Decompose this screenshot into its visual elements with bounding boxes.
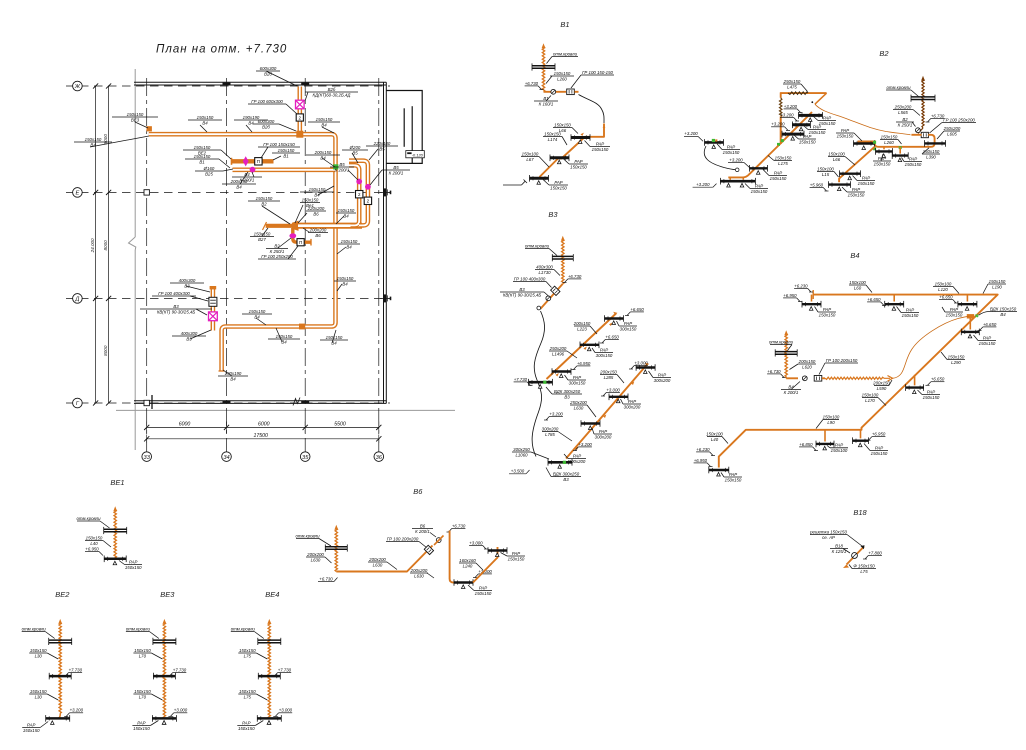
label В4 bbox=[232, 172, 262, 183]
svg-text:150x150: 150x150 bbox=[30, 648, 47, 653]
label 200x150 bbox=[872, 380, 890, 391]
grille РАР bbox=[829, 181, 851, 190]
svg-text:L1730: L1730 bbox=[538, 270, 551, 275]
label РАР bbox=[549, 180, 568, 191]
svg-text:L75: L75 bbox=[244, 694, 252, 699]
svg-text:250x200: 250x200 bbox=[943, 126, 961, 131]
svg-text:В2б: В2б bbox=[328, 87, 336, 92]
svg-text:L260: L260 bbox=[884, 140, 894, 145]
svg-text:200x150: 200x150 bbox=[798, 359, 816, 364]
svg-text:L630: L630 bbox=[373, 562, 383, 567]
label 150x150 bbox=[922, 149, 940, 160]
svg-text:+7.730: +7.730 bbox=[173, 667, 187, 672]
svg-text:L590: L590 bbox=[877, 386, 887, 391]
svg-text:Д: Д bbox=[74, 297, 79, 303]
elevation mark +6.950 bbox=[694, 458, 713, 467]
leader bbox=[223, 169, 233, 171]
elevation mark +6.950 bbox=[783, 293, 802, 302]
svg-text:L475: L475 bbox=[787, 84, 797, 89]
duct В1 short solid y=161.3 bbox=[232, 159, 274, 163]
label 150x150 bbox=[238, 689, 256, 700]
svg-text:РАР: РАР bbox=[862, 175, 870, 180]
label ГР 100 150x150 bbox=[258, 142, 300, 147]
label РАР bbox=[904, 156, 922, 167]
svg-text:150x150: 150x150 bbox=[134, 648, 151, 653]
leader bbox=[303, 228, 309, 232]
label В2 bbox=[266, 243, 288, 254]
label 600x300 bbox=[256, 66, 280, 77]
svg-text:150x150: 150x150 bbox=[134, 689, 151, 694]
svg-text:150x150: 150x150 bbox=[989, 279, 1006, 284]
svg-text:отм.кровли: отм.кровли bbox=[295, 533, 320, 538]
grille ВДК bbox=[529, 379, 553, 388]
label 150x100 bbox=[933, 281, 953, 292]
В1 flexible connector bbox=[579, 95, 605, 124]
label 200x200 bbox=[306, 552, 325, 563]
grille РАР bbox=[958, 301, 977, 310]
label РАР bbox=[474, 585, 492, 596]
label 150x150 bbox=[300, 197, 320, 208]
svg-text:РАР: РАР bbox=[927, 389, 935, 394]
label Ø200 bbox=[342, 145, 368, 156]
svg-text:В2: В2 bbox=[261, 201, 267, 206]
svg-text:+5.960: +5.960 bbox=[810, 182, 824, 187]
svg-text:РАР: РАР bbox=[813, 124, 821, 129]
svg-text:+6.650: +6.650 bbox=[983, 322, 997, 327]
grille РАР bbox=[792, 122, 810, 131]
label В3 bbox=[140, 304, 212, 315]
label 300x200 bbox=[542, 426, 559, 437]
В6 right drop and grilles bbox=[450, 531, 462, 583]
svg-text:РАР: РАР bbox=[554, 180, 562, 185]
svg-text:К 200/1: К 200/1 bbox=[240, 177, 255, 182]
svg-text:150x150: 150x150 bbox=[837, 133, 854, 138]
label 150x100 bbox=[849, 280, 866, 291]
svg-text:L40: L40 bbox=[711, 437, 719, 442]
svg-text:+6.730: +6.730 bbox=[452, 523, 466, 528]
svg-text:+3.200: +3.200 bbox=[784, 104, 798, 109]
grille РАР bbox=[705, 139, 724, 148]
svg-text:В18: В18 bbox=[835, 543, 843, 548]
label РАР bbox=[857, 175, 875, 186]
label 150x150 bbox=[336, 208, 356, 219]
label 150x150 bbox=[188, 115, 222, 126]
label В6 bbox=[412, 523, 433, 534]
grille РАР bbox=[720, 178, 755, 185]
svg-text:150x100: 150x100 bbox=[935, 281, 952, 286]
silencer ГР bbox=[814, 376, 822, 382]
leader bbox=[279, 124, 296, 131]
svg-text:400x300: 400x300 bbox=[179, 278, 196, 283]
svg-text:В4: В4 bbox=[1000, 312, 1006, 317]
svg-text:В6: В6 bbox=[315, 233, 321, 238]
svg-text:В4: В4 bbox=[248, 120, 254, 125]
svg-text:200x150: 200x150 bbox=[599, 369, 617, 374]
label РАР bbox=[769, 170, 787, 181]
svg-text:150x100: 150x100 bbox=[831, 448, 848, 453]
svg-text:6000: 6000 bbox=[258, 422, 270, 428]
svg-text:В4: В4 bbox=[331, 340, 337, 345]
svg-text:L290: L290 bbox=[951, 360, 961, 365]
label 150x150 bbox=[248, 196, 280, 207]
silencer ГР bbox=[567, 89, 575, 95]
svg-text:150x150: 150x150 bbox=[799, 139, 816, 144]
label РАР bbox=[507, 551, 525, 562]
svg-text:РАР: РАР bbox=[983, 335, 991, 340]
label РАР bbox=[847, 187, 865, 198]
svg-text:220x200: 220x200 bbox=[307, 206, 325, 211]
В2 bottom-left flag bbox=[693, 186, 713, 188]
svg-text:РАР: РАР bbox=[573, 453, 581, 458]
svg-text:150x150: 150x150 bbox=[923, 149, 940, 154]
label 200x200 bbox=[308, 227, 328, 238]
svg-text:150x150: 150x150 bbox=[570, 164, 587, 169]
svg-text:150x150: 150x150 bbox=[725, 477, 742, 482]
В3 lower diagonal run bbox=[566, 365, 647, 459]
svg-text:150x150: 150x150 bbox=[133, 726, 150, 731]
stair enclosure outline bbox=[386, 91, 422, 164]
grey section line vertical bbox=[134, 69, 136, 237]
В6 diagonal to upper-right grille bbox=[473, 547, 498, 583]
svg-text:В4: В4 bbox=[202, 120, 208, 125]
svg-text:150x150: 150x150 bbox=[276, 334, 293, 339]
roof level crossing отм.кровли crossing bbox=[258, 638, 281, 645]
svg-text:отм.кровли: отм.кровли bbox=[525, 243, 550, 248]
label 400x300 bbox=[535, 264, 554, 275]
svg-text:В3: В3 bbox=[519, 287, 525, 292]
label ВДК 300x250 bbox=[552, 389, 582, 400]
svg-text:150x150: 150x150 bbox=[23, 728, 40, 733]
svg-text:РАР: РАР bbox=[835, 443, 843, 448]
svg-text:ВДК 300x250: ВДК 300x250 bbox=[553, 471, 580, 476]
В2 flexible orange connector bbox=[815, 104, 911, 135]
svg-text:К 200/1: К 200/1 bbox=[389, 170, 404, 175]
label РАР bbox=[568, 375, 586, 386]
svg-text:150x150: 150x150 bbox=[905, 162, 922, 167]
label 150x150 bbox=[85, 535, 103, 546]
svg-text:L75: L75 bbox=[860, 569, 868, 574]
svg-text:се. АР: се. АР bbox=[822, 535, 835, 540]
axis line Е bbox=[66, 191, 390, 193]
svg-text:150x150: 150x150 bbox=[239, 689, 256, 694]
grille РАР bbox=[581, 420, 600, 429]
label 150x150 bbox=[553, 122, 572, 132]
svg-text:+3.000: +3.000 bbox=[469, 540, 483, 545]
svg-text:150x150: 150x150 bbox=[858, 181, 875, 186]
svg-text:150x100: 150x100 bbox=[706, 431, 723, 436]
svg-text:В1: В1 bbox=[283, 153, 289, 158]
bottom dimension line 17500 bbox=[147, 438, 379, 440]
box symbol bbox=[364, 197, 371, 204]
leader bbox=[298, 213, 307, 223]
label 150x150 bbox=[550, 71, 574, 82]
svg-text:В2б: В2б bbox=[262, 124, 270, 129]
svg-text:250x200: 250x200 bbox=[894, 104, 912, 109]
leader bbox=[322, 158, 335, 167]
leader bbox=[90, 136, 149, 147]
label ВДК 300x250 bbox=[551, 471, 581, 482]
svg-text:В18: В18 bbox=[853, 508, 867, 517]
elevation mark +6.730 bbox=[926, 113, 945, 122]
column circle 35 bbox=[300, 452, 310, 462]
damper diamond on В1 duct bbox=[243, 156, 249, 166]
dampers on В5 risers bbox=[356, 179, 362, 185]
svg-text:150x100: 150x100 bbox=[828, 151, 845, 156]
svg-text:L90: L90 bbox=[827, 420, 835, 425]
label ВДК 150x150 bbox=[989, 306, 1017, 317]
elevation mark +6.730 bbox=[447, 523, 466, 532]
svg-text:ГР 100 200x200: ГР 100 200x200 bbox=[387, 536, 419, 541]
svg-text:150x150: 150x150 bbox=[309, 187, 326, 192]
svg-text:КВ(КТ) 90-30/25,4Б: КВ(КТ) 90-30/25,4Б bbox=[157, 309, 196, 314]
axis circle Г bbox=[73, 398, 83, 408]
grille РАР bbox=[530, 175, 549, 184]
leader bbox=[252, 172, 254, 177]
svg-text:РАР: РАР bbox=[841, 128, 849, 133]
leader bbox=[332, 330, 336, 343]
label 150x100 bbox=[817, 166, 834, 177]
roof level crossing отм.кровли crossing bbox=[552, 254, 573, 261]
elevation mark +7.730 bbox=[272, 667, 291, 676]
column circle 34 bbox=[222, 452, 232, 462]
В6 +6.730 flag bottom bbox=[318, 581, 334, 583]
svg-text:17500: 17500 bbox=[253, 433, 268, 439]
svg-text:ВЕ4: ВЕ4 bbox=[265, 590, 279, 599]
svg-text:150x150: 150x150 bbox=[723, 150, 740, 155]
svg-text:150x150: 150x150 bbox=[338, 208, 355, 213]
В6 main duct path bbox=[336, 546, 432, 572]
svg-text:190x190: 190x190 bbox=[243, 115, 260, 120]
svg-text:L40: L40 bbox=[90, 541, 98, 546]
leader bbox=[256, 318, 266, 325]
В2 two drops with grilles bbox=[883, 147, 885, 150]
leader bbox=[223, 370, 232, 376]
svg-text:+6.230: +6.230 bbox=[794, 283, 808, 288]
grille РАР bbox=[580, 342, 599, 351]
svg-text:отм.кровли: отм.кровли bbox=[126, 626, 151, 631]
column squares bbox=[144, 190, 149, 195]
svg-text:400x300: 400x300 bbox=[181, 331, 198, 336]
box symbol bbox=[255, 158, 262, 165]
svg-text:ГР 100 400x300: ГР 100 400x300 bbox=[158, 291, 190, 296]
label РАР bbox=[724, 472, 742, 483]
svg-text:250x150: 250x150 bbox=[783, 79, 801, 84]
svg-text:В3: В3 bbox=[186, 336, 192, 341]
svg-text:В4: В4 bbox=[254, 314, 260, 319]
svg-text:ГР 100 250x200: ГР 100 250x200 bbox=[261, 254, 293, 259]
fan bbox=[916, 128, 921, 133]
svg-text:В4: В4 bbox=[244, 172, 250, 177]
label 150x100 bbox=[521, 151, 539, 162]
leader bbox=[286, 104, 297, 114]
labels bbox=[256, 653, 267, 659]
svg-text:+3.200: +3.200 bbox=[696, 182, 710, 187]
duct В2 run double right part bbox=[298, 223, 362, 229]
svg-text:+3.500: +3.500 bbox=[511, 469, 525, 474]
elevation mark +6.950 bbox=[572, 361, 591, 370]
label 150x100 bbox=[823, 414, 840, 425]
svg-text:200x200: 200x200 bbox=[410, 568, 428, 573]
leader bbox=[186, 286, 210, 292]
duct В3 riser at x=212.9 bbox=[211, 288, 216, 331]
svg-text:К 160/1: К 160/1 bbox=[539, 101, 554, 106]
leader bbox=[305, 92, 308, 101]
svg-text:+3.200: +3.200 bbox=[70, 708, 84, 713]
В4 grille on diagonal mid bbox=[914, 375, 916, 386]
svg-text:КВ(КТ) 90-30/25,4Б: КВ(КТ) 90-30/25,4Б bbox=[503, 292, 542, 297]
svg-text:К 200/1: К 200/1 bbox=[784, 390, 799, 395]
svg-text:+7.880: +7.880 bbox=[868, 550, 882, 555]
svg-text:L285: L285 bbox=[604, 375, 614, 380]
svg-text:220x180: 220x180 bbox=[373, 141, 391, 146]
label 150x150 bbox=[242, 309, 272, 320]
svg-text:ВЕ3: ВЕ3 bbox=[131, 117, 140, 122]
leader bbox=[278, 238, 291, 248]
svg-text:300x200: 300x200 bbox=[624, 404, 641, 409]
svg-text:150x150: 150x150 bbox=[238, 726, 255, 731]
svg-text:L174: L174 bbox=[548, 137, 558, 142]
fan bbox=[546, 296, 551, 301]
leader bbox=[295, 205, 303, 223]
label В1 bbox=[534, 96, 558, 107]
label Ø160 bbox=[195, 166, 223, 177]
В4 top duct bbox=[719, 295, 998, 468]
duct В2 run y=225.4 solid left part bbox=[266, 224, 293, 228]
svg-text:ВДК 300x250: ВДК 300x250 bbox=[554, 389, 581, 394]
svg-text:ВДК 150x150: ВДК 150x150 bbox=[990, 306, 1017, 311]
svg-text:В1: В1 bbox=[543, 96, 549, 101]
svg-text:+3.000: +3.000 bbox=[174, 708, 188, 713]
label 200x150 bbox=[573, 321, 591, 332]
roof level crossing отм.кровли crossing bbox=[49, 638, 72, 645]
axis line Ж bbox=[66, 85, 390, 87]
svg-text:ГР 100 250x200: ГР 100 250x200 bbox=[943, 117, 975, 122]
svg-text:L1060: L1060 bbox=[515, 452, 528, 457]
grey line horizontal bottom bbox=[116, 409, 455, 411]
svg-text:ГР 100 200x150: ГР 100 200x150 bbox=[826, 358, 858, 363]
svg-text:35: 35 bbox=[302, 455, 309, 461]
svg-text:L15: L15 bbox=[822, 172, 830, 177]
svg-text:300x200: 300x200 bbox=[569, 459, 586, 464]
label 150x150 bbox=[133, 689, 151, 700]
leader bbox=[318, 186, 334, 195]
svg-text:+3.200: +3.200 bbox=[549, 411, 563, 416]
svg-text:150x150: 150x150 bbox=[302, 197, 319, 202]
box symbol bbox=[296, 114, 303, 121]
grille РАР bbox=[46, 715, 70, 722]
svg-text:300x150: 300x150 bbox=[569, 380, 586, 385]
leader bbox=[266, 71, 297, 86]
svg-text:В4: В4 bbox=[320, 155, 326, 160]
leader bbox=[369, 149, 378, 160]
label РАР bbox=[836, 128, 854, 139]
grille РАР bbox=[840, 170, 861, 179]
elevation mark +6.650 bbox=[600, 334, 619, 343]
svg-text:К 250/1: К 250/1 bbox=[898, 122, 913, 127]
label 250x200 bbox=[943, 126, 961, 137]
svg-text:отм.кровли: отм.кровли bbox=[769, 339, 794, 344]
svg-text:160x160: 160x160 bbox=[459, 558, 476, 563]
elevation mark +6.850 bbox=[799, 442, 818, 451]
wall bottom bbox=[134, 400, 386, 402]
label В4 bbox=[781, 384, 801, 395]
label РАР bbox=[22, 722, 40, 733]
svg-text:РАР: РАР bbox=[129, 559, 137, 564]
elevation mark +3.000 bbox=[473, 569, 492, 578]
leader bbox=[262, 228, 268, 236]
label РАР bbox=[945, 307, 963, 318]
svg-text:300x250: 300x250 bbox=[513, 447, 530, 452]
svg-text:150x150: 150x150 bbox=[751, 189, 768, 194]
grille РАР bbox=[454, 579, 473, 588]
svg-text:250x200: 250x200 bbox=[569, 400, 587, 405]
svg-text:В4: В4 bbox=[346, 244, 352, 249]
label Ф 150x150 bbox=[852, 563, 876, 574]
label 150x150 bbox=[268, 334, 300, 345]
svg-text:К 200/1: К 200/1 bbox=[335, 167, 350, 172]
отм.кровли label bbox=[149, 632, 159, 639]
svg-text:+6.950: +6.950 bbox=[783, 293, 797, 298]
funnel transition bbox=[292, 221, 299, 231]
label 300x250 bbox=[512, 447, 531, 458]
grille РАР bbox=[550, 155, 569, 164]
grille РАР bbox=[609, 394, 628, 403]
label 200x200 bbox=[410, 568, 428, 579]
elevation mark +3.000 bbox=[469, 540, 488, 549]
svg-text:+7.730: +7.730 bbox=[278, 667, 292, 672]
label ГР 100 600x300 bbox=[248, 99, 286, 104]
leader bbox=[240, 172, 248, 184]
elevation mark +6.650 bbox=[867, 297, 886, 306]
svg-text:РАР: РАР bbox=[573, 375, 581, 380]
svg-text:150x150: 150x150 bbox=[819, 312, 836, 317]
leader bbox=[190, 330, 211, 339]
В4 grille on diagonal (ВДК) bbox=[976, 315, 979, 318]
roof level crossing отм.кровли crossing bbox=[532, 63, 555, 70]
svg-text:150x150: 150x150 bbox=[316, 117, 333, 122]
svg-text:150x150: 150x150 bbox=[554, 71, 571, 76]
svg-text:РАР: РАР bbox=[823, 115, 831, 120]
svg-text:+3.200: +3.200 bbox=[729, 157, 743, 162]
svg-text:150x150: 150x150 bbox=[194, 154, 211, 159]
grille РАР bbox=[961, 329, 979, 338]
svg-text:+6.650: +6.650 bbox=[939, 294, 953, 299]
svg-text:300x200: 300x200 bbox=[542, 426, 559, 431]
svg-text:150x150: 150x150 bbox=[819, 121, 836, 126]
svg-text:+6.950: +6.950 bbox=[872, 432, 886, 437]
grille РАР bbox=[892, 152, 908, 161]
elevation mark +3.200 bbox=[573, 442, 592, 451]
svg-text:К 200/1: К 200/1 bbox=[415, 529, 430, 534]
svg-text:L785: L785 bbox=[545, 432, 555, 437]
svg-text:Е: Е bbox=[76, 191, 80, 197]
leader bbox=[276, 328, 282, 342]
svg-text:300x150: 300x150 bbox=[620, 326, 637, 331]
label 150x150 bbox=[988, 279, 1006, 290]
В4 bottom duct grilles bbox=[824, 430, 826, 442]
svg-text:150x150: 150x150 bbox=[775, 155, 792, 160]
fire damper КД bbox=[209, 312, 218, 321]
svg-text:200x150: 200x150 bbox=[872, 380, 890, 385]
leader bbox=[221, 150, 231, 159]
svg-text:6000: 6000 bbox=[179, 422, 191, 428]
svg-text:+3.200: +3.200 bbox=[771, 122, 785, 127]
leader bbox=[337, 247, 346, 254]
grille РАР bbox=[258, 673, 280, 680]
svg-text:В4: В4 bbox=[230, 376, 236, 381]
elevation mark +6.230 bbox=[696, 447, 715, 456]
grille РАР bbox=[49, 673, 71, 680]
